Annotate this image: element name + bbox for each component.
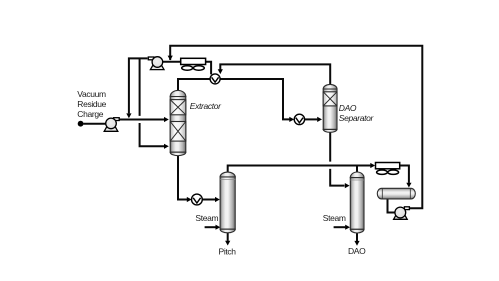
svg-text:Pitch: Pitch [219, 246, 237, 256]
wire: extractor bottoms to pitch heater E3 [178, 155, 187, 199]
DAO stripper bottom head [350, 229, 364, 233]
arrow: recycle solvent into P2 suction line [168, 56, 173, 61]
arrow: into air cooler AC2 [370, 163, 375, 168]
svg-text:Extractor: Extractor [190, 101, 222, 111]
pitch stripper shell [220, 177, 235, 229]
wire: steam line to DAO stripper [334, 226, 346, 228]
wire: vacuum residue charge to pump P1 [83, 123, 106, 125]
arrow: pitch product down [225, 241, 230, 246]
arrow: into DAO stripper [345, 183, 350, 188]
wire: pump P2 discharge to solvent split header [129, 58, 148, 113]
wire: extractor overhead to exchanger E1 [178, 79, 210, 91]
pitch stripper rim band [220, 179, 235, 181]
arrow: feed into extractor upper inlet [164, 117, 169, 122]
pitch stripper top dome [220, 172, 235, 177]
wire: steam line to pitch stripper [205, 226, 216, 228]
wire: pump P2 suction / air cooler AC1 inlet [162, 61, 180, 63]
arrow: steam into pitch stripper [216, 225, 221, 230]
extractor shell [170, 97, 186, 153]
wire: E1 outlet to DAO separator feed heater E2 [220, 79, 290, 119]
wire: pitch product outlet [227, 233, 229, 241]
node: vacuum residue charge origin [78, 121, 84, 127]
DAO separator top dome [323, 84, 337, 89]
svg-text:Residue: Residue [77, 99, 106, 109]
arrow: into DAO separator [317, 117, 322, 122]
wire: E3 outlet to pitch stripper inlet [202, 199, 215, 201]
svg-text:Charge: Charge [77, 109, 103, 119]
arrow: into pitch heater E3 [187, 197, 192, 202]
arrow: solvent into extractor lower inlet [164, 144, 169, 149]
DAO separator packing section [323, 92, 337, 106]
arrow: into heater E2 [289, 117, 294, 122]
wire: recycle solvent top header [170, 46, 422, 209]
arrow: DAO product down [354, 241, 359, 246]
arrow: into solvent drum [406, 183, 411, 188]
arrow: into pitch stripper [215, 197, 220, 202]
wire: solvent branch to extractor lower inlet (with crossover gap) [140, 58, 165, 146]
extractor packing section 1 [170, 100, 186, 115]
arrow: steam into DAO stripper [345, 225, 350, 230]
DAO stripper rim band [350, 179, 364, 181]
svg-text:DAO: DAO [348, 246, 366, 256]
svg-text:Steam: Steam [195, 213, 218, 223]
svg-text:Separator: Separator [339, 113, 375, 123]
DAO stripper top dome [350, 172, 364, 178]
DAO stripper shell [350, 178, 364, 230]
wire: E2 outlet to DAO separator inlet [305, 118, 318, 120]
wire: DAO product outlet [356, 233, 358, 241]
extractor top dome [170, 90, 186, 96]
DAO separator bottom head [323, 129, 337, 132]
svg-text:Steam: Steam [323, 213, 346, 223]
DAO separator shell [323, 89, 337, 129]
wire: DAO separator bottoms to DAO stripper (with crossover gap) [330, 132, 344, 186]
wire: pitch stripper overhead header to AC2 [228, 166, 371, 173]
wire: drum bottoms to pump P3 suction [388, 199, 395, 213]
wire: DAO stripper overhead riser [356, 166, 358, 173]
wire: AC1 outlet down into exchanger E1 [206, 62, 212, 75]
arrow: separator overhead into E1 [218, 69, 223, 74]
svg-text:DAO: DAO [339, 103, 357, 113]
wire: DAO separator overhead back to E1 [220, 64, 330, 85]
extractor bottom head [170, 152, 186, 156]
wire: pump P1 discharge / extractor upper feed [119, 119, 164, 121]
arrow: solvent into charge line junction [126, 113, 131, 118]
wire: AC2 outlet down to solvent drum [400, 166, 409, 183]
extractor packing section 2 [170, 122, 186, 142]
pitch stripper bottom head [220, 229, 235, 233]
svg-text:Vacuum: Vacuum [77, 89, 106, 99]
